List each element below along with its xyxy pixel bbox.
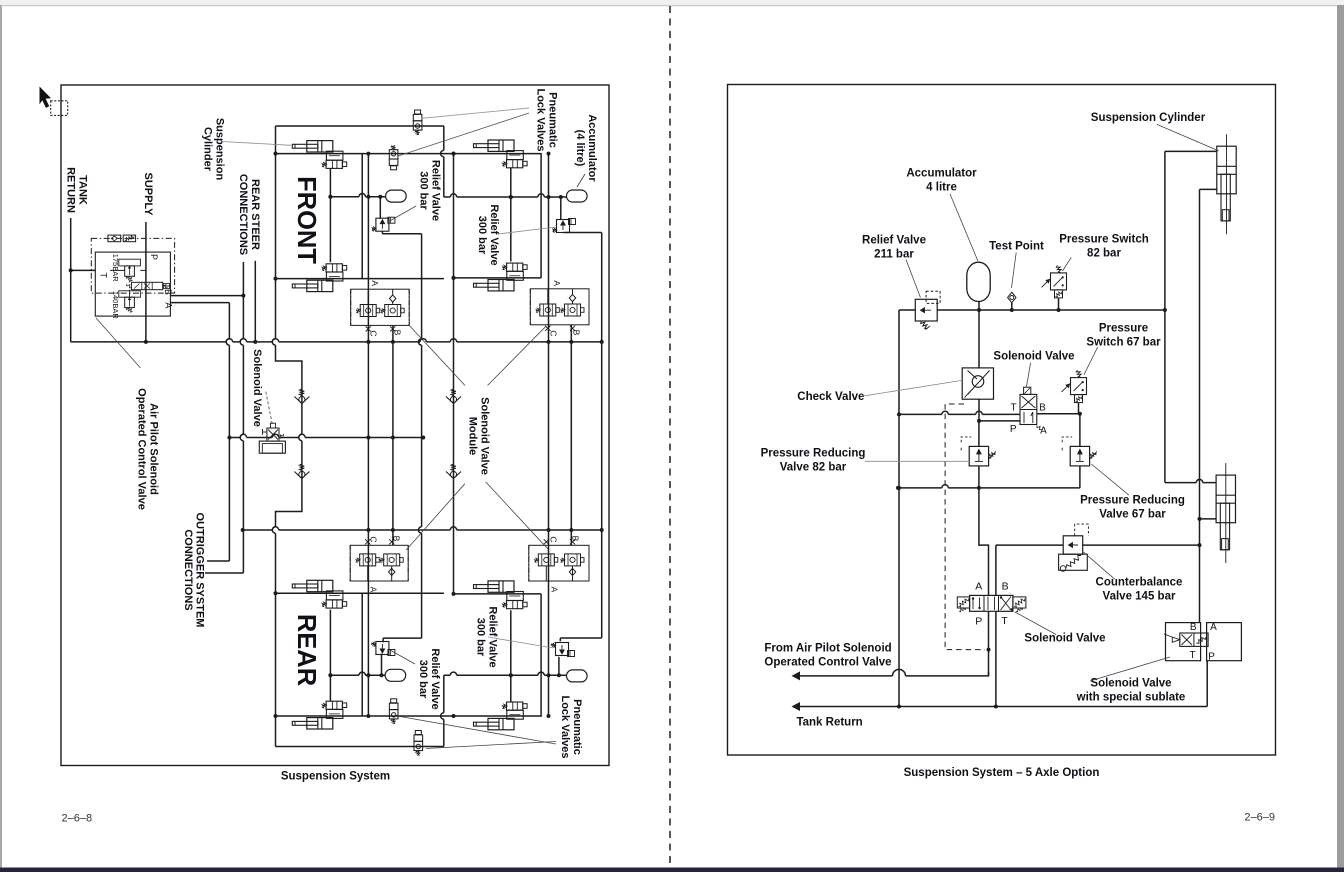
lock valve assembly rear-right outer [507,710,524,719]
page chrome right scrollbar strip [1337,5,1344,868]
svg-text:B: B [571,536,581,542]
wire front-left outer rail [276,125,444,127]
svg-text:OUTRIGGER SYSTEM: OUTRIGGER SYSTEM [194,513,206,628]
leader check valve [862,381,962,397]
pressure switch 67 bar symbol [1071,378,1087,395]
air pilot control block body [95,252,170,316]
lock valve assembly rear-left outer [326,709,343,718]
leader suspension cylinder [222,142,291,146]
pneumatic lock valve bottom-1 [391,699,397,703]
wire rear-left inner valve line [329,610,331,702]
wire B-line outrigger stub [205,572,243,574]
leader ps82 [1063,257,1072,271]
leader accumulator top [577,174,585,187]
svg-text:300 bar: 300 bar [418,171,430,210]
leader air pilot block [96,318,141,368]
svg-text:Relief Valve: Relief Valve [488,204,500,265]
svg-text:A: A [369,587,379,593]
svg-text:A: A [1040,425,1047,436]
wire front-left inner valve line [329,168,331,262]
wire B module line right [570,325,572,546]
leader pneumatic top to LV2 [398,113,529,156]
svg-text:P: P [149,254,159,260]
svg-text:Pressure Reducing: Pressure Reducing [761,448,866,460]
wire rear-right mid line [444,672,567,675]
wire front-right mid line [444,194,567,197]
wire rear-right right box edge [540,594,542,717]
wire front cylinder rail shared [276,153,542,155]
solenoid valve module rear-right [529,545,589,581]
svg-text:Pneumatic: Pneumatic [571,699,583,755]
svg-text:Accumulator: Accumulator [586,114,598,182]
wire main rail right page [937,309,1165,311]
wire right check line [453,154,455,594]
wire front-left bottom rail [276,278,444,280]
left diagram frame [61,85,609,766]
svg-text:Pressure Switch: Pressure Switch [1059,234,1148,246]
right diagram frame [728,85,1276,756]
svg-text:SUPPLY: SUPPLY [142,172,154,216]
svg-text:300 bar: 300 bar [417,660,429,699]
leader prv82 [865,460,968,462]
svg-text:Solenoid Valve: Solenoid Valve [478,397,490,475]
lock valve assembly front-left outer [326,151,343,160]
svg-text:Operated Control Valve: Operated Control Valve [764,657,891,669]
relief valve 140BAR [125,297,135,307]
svg-text:REAR: REAR [292,614,320,686]
wire rear-left outer rail [276,746,444,748]
svg-text:T: T [1190,650,1196,661]
wire left box edge with jog [276,126,302,747]
svg-text:Check Valve: Check Valve [797,391,864,403]
leader accumulator right [950,194,978,261]
leader relief front-left [388,206,416,222]
accumulator rear-right [567,670,588,682]
svg-text:Relief Valve: Relief Valve [429,648,441,709]
wire P stub down [988,611,990,676]
solenoid valve 4-2 [1020,394,1037,424]
svg-text:2–6–9: 2–6–9 [1244,812,1275,824]
svg-text:From Air Pilot Solenoid: From Air Pilot Solenoid [764,643,891,655]
center page divider dashed line [669,6,671,866]
page chrome left edge [0,5,2,868]
wire front-right bottom rail [454,277,542,279]
leader pneumatic bottom to LV4 [426,742,556,749]
svg-text:Air Pilot Solenoid: Air Pilot Solenoid [147,403,159,495]
relief valve rear-left [381,654,383,676]
svg-text:C: C [549,330,559,336]
svg-text:Pneumatic: Pneumatic [546,92,558,148]
svg-text:Lock Valves: Lock Valves [559,696,571,759]
wire rail R1 [71,339,602,342]
leader module rear-left [406,484,465,550]
wire A-C module line left [367,154,369,716]
suspension cylinder front-left inner [307,280,333,291]
svg-text:A: A [552,280,562,286]
leader solenoid lower [1015,612,1056,635]
air pilot control block dashdot enclosure [91,238,174,293]
svg-text:4 litre: 4 litre [926,182,957,194]
solenoid valve module rear-left [350,545,408,581]
mouse cursor arrow [40,87,52,108]
wire tank return vertical [70,218,72,342]
wire tank return line [800,706,1207,708]
svg-text:Solenoid Valve: Solenoid Valve [1024,633,1105,645]
wire tank return up to block [1206,661,1208,707]
wire ps67 stem [1078,403,1080,414]
svg-text:Cylinder: Cylinder [202,127,214,172]
wire relief return left [381,231,383,234]
svg-text:T: T [99,272,109,278]
leader counterbalance [1084,552,1115,579]
wire front-left mid line [330,194,385,197]
wire B-line output [170,295,243,297]
wire front outer right edge [441,126,444,197]
svg-text:Switch 67 bar: Switch 67 bar [1086,337,1161,349]
svg-text:TANK: TANK [76,175,88,205]
relief valve rear-right [558,657,560,675]
svg-text:Relief Valve: Relief Valve [429,160,441,221]
svg-text:P: P [1208,651,1215,662]
wire rear-right inner valve line [510,610,512,702]
svg-text:Lock Valves: Lock Valves [535,89,547,152]
svg-text:B: B [1002,581,1009,593]
wire subplate top feed [1199,622,1201,624]
wire B module line left [392,325,394,545]
svg-text:Counterbalance: Counterbalance [1096,577,1183,589]
svg-text:Pressure Reducing: Pressure Reducing [1080,495,1185,507]
suspension cylinder rear-left outer [307,718,333,729]
svg-text:Valve 67 bar: Valve 67 bar [1099,509,1166,521]
dashed pilot enclosure [945,404,985,650]
leader module rear-right [486,482,548,549]
svg-text:300 bar: 300 bar [476,216,488,255]
wire B-line vertical [240,262,243,573]
accumulator front-left [386,190,407,202]
svg-text:A: A [1210,622,1217,633]
accumulator 4 litre symbol [967,262,990,301]
counterbalance valve [1063,536,1083,554]
relief valve front-right [560,197,562,220]
svg-text:Suspension System – 5 Axle Opt: Suspension System – 5 Axle Option [904,767,1100,779]
wire prv82 bottom stub [978,466,980,488]
wire rear outer right edge [441,675,444,746]
check valve symbol right upper [451,389,456,396]
lock valve assembly front-right inner [507,271,524,280]
svg-text:T: T [1010,402,1016,413]
relief valve front-left [379,197,381,219]
pressure reducing valve 82 bar symbol [969,446,988,466]
svg-text:with special sublate: with special sublate [1076,692,1186,704]
svg-text:A: A [370,280,380,286]
filter box 1 [108,235,121,242]
pressure reducing valve 67 bar symbol [1070,446,1089,466]
check valve symbol left upper [300,389,305,396]
svg-text:175BAR: 175BAR [111,254,120,283]
svg-text:RETURN: RETURN [65,167,77,213]
wire relief return right [601,233,603,639]
pressure switch 82 bar symbol [1051,273,1067,290]
wire ps82 stem [1058,298,1060,310]
wire CB right segment [1083,544,1200,546]
suspension cylinder rear-right outer [488,718,514,729]
svg-text:C: C [549,536,559,542]
leader relief front-right [498,227,556,234]
svg-text:Suspension: Suspension [213,118,225,181]
leader ps67 [1084,347,1098,375]
wire front-right right box edge [540,153,542,278]
wire T-line [899,411,1020,414]
cursor selection dashed box [51,101,68,116]
svg-text:Suspension System: Suspension System [281,771,390,783]
solenoid valve module front-right [530,289,589,325]
svg-text:140BAR: 140BAR [111,291,120,320]
svg-text:Operated Control Valve: Operated Control Valve [136,388,148,510]
svg-text:B: B [392,536,402,542]
svg-text:Accumulator: Accumulator [906,168,977,180]
svg-text:Test Point: Test Point [989,241,1044,253]
wire rear-steer second vertical [254,261,256,342]
svg-text:Valve 82 bar: Valve 82 bar [780,462,847,474]
pneumatic lock valve bottom-2 [415,731,421,735]
wire cylinder1 feed [1165,150,1217,152]
wire supply vertical [145,222,147,342]
svg-text:B: B [1190,622,1197,633]
wire A-line output [170,302,229,304]
suspension cylinder right-1 [1217,146,1236,194]
svg-text:C: C [369,536,379,542]
svg-text:A: A [550,587,560,593]
page chrome top strip [0,0,1344,5]
accumulator rear-left [385,669,406,681]
leader pneumatic top to LV1 [422,108,529,118]
svg-text:B: B [1039,402,1046,413]
wire T stub down [995,611,997,706]
wire A-C module line right [548,153,550,717]
svg-text:Tank Return: Tank Return [796,717,862,729]
svg-text:B: B [393,330,403,336]
wire P-line [979,420,1020,422]
svg-text:REAR STEER: REAR STEER [249,179,261,250]
relief valve 175BAR [125,266,135,276]
svg-text:Solenoid Valve: Solenoid Valve [1090,678,1171,690]
filter box 2 [123,235,135,242]
test point symbol [1008,292,1016,303]
leader relief rear-right [488,637,553,648]
pneumatic lock valve top-2 [391,166,397,170]
svg-text:C: C [369,330,379,336]
svg-text:Solenoid Valve: Solenoid Valve [993,350,1074,362]
svg-text:Pressure: Pressure [1099,323,1148,335]
svg-text:82 bar: 82 bar [1087,248,1121,260]
page chrome bottom bar [0,868,1344,873]
wire cylinder2 feed upper [1165,479,1216,482]
svg-text:B: B [163,289,173,295]
svg-text:Suspension Cylinder: Suspension Cylinder [1091,112,1206,124]
svg-text:CONNECTIONS: CONNECTIONS [237,174,249,255]
svg-text:(4 litre): (4 litre) [574,130,586,167]
wire rear cylinder rail shared [276,715,542,717]
solenoid valve 4-3 [957,597,969,608]
svg-text:P: P [1010,424,1017,435]
wire A-path down [979,488,989,596]
svg-text:A: A [975,581,982,593]
check valve right page [962,368,993,399]
wire A-line outrigger stub [207,560,229,562]
svg-text:P: P [975,616,982,628]
solenoid valve with subplate block [1166,623,1201,661]
leader solenoid valve mid [266,392,273,426]
lock valve assembly rear-right inner [507,592,524,601]
leader pneumatic bottom to LV3 [400,717,556,745]
wire rail R3 [243,527,602,530]
lock valve assembly front-right outer [507,151,524,160]
wire check valve vertical [978,310,980,368]
wire B-rail to ps67 [1037,413,1080,415]
leader relief rear-left [390,650,415,664]
svg-text:Module: Module [467,417,479,456]
wire lower rail 488 [898,485,1080,488]
lock valve assembly front-left inner [326,272,343,281]
leader solenoid upper [1027,363,1031,387]
wire prv82 top stub [978,421,980,447]
svg-text:CONNECTIONS: CONNECTIONS [182,529,194,610]
leader subplate [1090,657,1170,681]
wire rear-left bottom rail [276,592,444,594]
wire cylinder2 feed lower [1200,518,1217,520]
wire ps67 down [1079,414,1081,447]
svg-text:300 bar: 300 bar [475,618,487,657]
wire rear-right bottom rail [454,593,542,595]
svg-text:Valve 145 bar: Valve 145 bar [1103,591,1176,603]
wire rear-left return vertical [361,593,363,716]
leader relief 211 [906,260,920,298]
svg-text:Relief Valve: Relief Valve [862,235,926,247]
wire left drop vertical [898,310,900,707]
wire B-path down [995,545,997,595]
relief valve 211 bar [915,299,937,321]
solenoid valve module front-left [351,289,410,325]
wire cylinder1 lower feed [1199,189,1201,622]
check valve symbol right lower [451,464,456,471]
pilot 4-3 valve [131,282,162,289]
suspension cylinder rear-left inner [307,580,333,591]
suspension cylinder front-right outer [488,140,514,151]
svg-text:T: T [1001,615,1008,627]
wire rail R2 [229,434,423,437]
pneumatic lock valve top-1 [415,110,421,114]
svg-text:Solenoid Valve: Solenoid Valve [251,349,263,427]
accumulator front-right [567,190,588,202]
svg-text:A: A [164,302,174,308]
suspension cylinder front-left outer [307,141,333,152]
suspension cylinder front-right inner [488,280,514,291]
wire front-left return vertical [361,154,363,279]
leader module front-left [409,325,465,385]
suspension cylinder right-2 [1216,475,1235,523]
wire relief211 left link [899,309,915,311]
check valve symbol left lower [300,464,305,471]
svg-text:B: B [572,330,582,336]
lock valve assembly rear-left inner [326,591,343,600]
wire CB left segment [996,544,1063,546]
wire air pilot input line [800,669,989,675]
leader test point [1012,253,1017,289]
leader suspension cylinder right [1157,124,1219,150]
svg-text:FRONT: FRONT [292,176,320,264]
svg-text:2–6–8: 2–6–8 [62,813,93,825]
wire accumulator stem [978,302,980,311]
wire prv67 bottom stub [1079,466,1081,488]
leader module front-right [488,327,546,386]
solenoid valve mid symbol [259,441,285,453]
wire rear-left mid line [330,672,385,675]
block internal wires [110,269,125,271]
svg-text:211 bar: 211 bar [874,249,914,261]
suspension cylinder rear-right inner [488,581,514,592]
wire front-right inner valve line [510,168,512,262]
leader prv67 [1091,464,1129,495]
wire tank T-line [71,269,96,271]
